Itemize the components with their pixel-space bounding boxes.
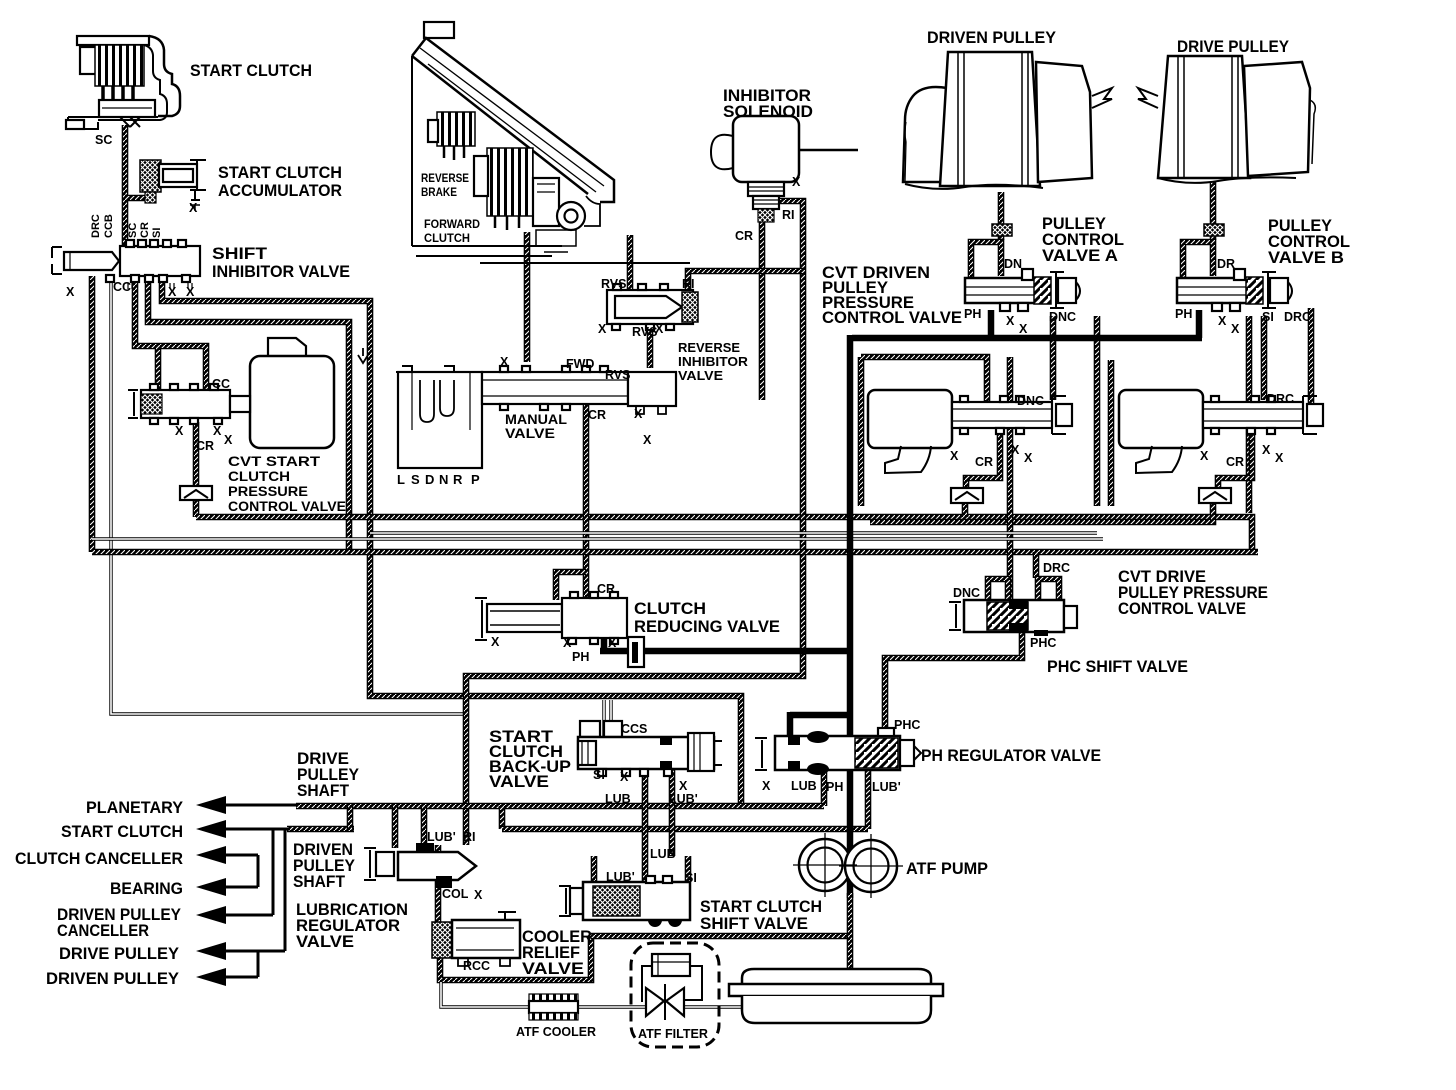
- svg-text:FORWARD: FORWARD: [424, 217, 480, 231]
- svg-text:REVERSE: REVERSE: [421, 171, 469, 185]
- wire DNC trunk into PHC shift valve: [1007, 357, 1014, 602]
- svg-text:PLANETARY: PLANETARY: [86, 799, 183, 817]
- svg-text:LUB': LUB': [427, 830, 456, 844]
- svg-text:FWD: FWD: [566, 357, 594, 371]
- wire LUB-prime drop to lubrication valve: [421, 806, 428, 845]
- svg-text:X: X: [1275, 451, 1284, 465]
- wire valve A PH drop: [988, 310, 995, 338]
- wire shift inhibitor line down and right to back-up loop: [111, 276, 466, 714]
- wire lower lube line: [502, 826, 868, 833]
- svg-text:X: X: [175, 424, 184, 438]
- manual valve: [358, 348, 676, 468]
- wire PHC line from shift valve to PH regulator: [885, 632, 1022, 737]
- svg-text:X: X: [168, 285, 177, 299]
- wire LUB-prime from back-up valve: [669, 770, 676, 856]
- wire start clutch hatched segment: [287, 826, 354, 833]
- svg-text:VALVE A: VALVE A: [1042, 247, 1118, 265]
- svg-text:CONTROL VALVE: CONTROL VALVE: [1118, 600, 1246, 618]
- svg-text:CLUTCH CANCELLER: CLUTCH CANCELLER: [15, 850, 183, 868]
- svg-text:X: X: [189, 201, 198, 215]
- wire drop to lubrication valve: [392, 806, 399, 848]
- svg-text:LUB: LUB: [791, 779, 817, 793]
- cooler relief valve: [432, 912, 520, 966]
- wire drive PCV CR loop: [1218, 428, 1252, 490]
- svg-text:DNC: DNC: [953, 586, 980, 600]
- wire PHC valve DRC port box: [1038, 579, 1059, 602]
- wire PH trunk vertical: [847, 335, 854, 898]
- svg-text:VALVE: VALVE: [489, 773, 549, 791]
- start clutch assembly: [66, 36, 180, 129]
- wire valve A inlet loop: [971, 242, 1001, 278]
- wire riser planetary to start clutch line: [347, 806, 354, 829]
- CVT drive pulley pressure control valve solenoid: [1119, 390, 1323, 503]
- svg-text:X: X: [474, 888, 483, 902]
- wire RVS link reverse inhibitor to manual valve: [647, 324, 654, 368]
- spring drive PCV: [1199, 488, 1231, 503]
- wire CC feed to start clutch PCV loop: [135, 276, 206, 390]
- wire CCS feed a: [602, 700, 605, 736]
- svg-text:REDUCING VALVE: REDUCING VALVE: [634, 618, 780, 636]
- wire filter to oil pan: [684, 1005, 742, 1008]
- svg-text:X: X: [950, 449, 959, 463]
- reverse inhibitor valve: [607, 284, 698, 330]
- svg-text:SOLENOID: SOLENOID: [723, 103, 813, 121]
- wire cooler circuit left: [441, 982, 529, 1007]
- wire PH main horizontal: [852, 335, 1202, 342]
- wire riser to shift valve LUB-prime: [591, 856, 598, 882]
- wire long loop from shift inhibitor valve to back-up valve box: [162, 276, 741, 806]
- svg-text:X: X: [1262, 443, 1271, 457]
- start clutch back-up valve: [578, 721, 722, 776]
- svg-text:START CLUTCH: START CLUTCH: [190, 62, 312, 80]
- svg-text:SHIFT VALVE: SHIFT VALVE: [700, 915, 808, 933]
- svg-text:PH: PH: [572, 650, 589, 664]
- wire DNC drop from valve A: [1050, 316, 1057, 400]
- wire DRC into PHC shift valve: [1033, 552, 1040, 578]
- svg-text:X: X: [186, 285, 195, 299]
- reverse brake and forward clutch assembly: [412, 22, 614, 256]
- PHC shift valve: [949, 579, 1077, 636]
- svg-text:START CLUTCH: START CLUTCH: [700, 898, 822, 916]
- wire second thin band line: [92, 537, 1103, 540]
- wire RCC loop: [440, 936, 591, 980]
- svg-text:X: X: [1218, 314, 1227, 328]
- wire lubrication valve to cooler relief valve: [435, 845, 442, 925]
- svg-text:INHIBITOR VALVE: INHIBITOR VALVE: [212, 263, 350, 281]
- wire shift inhibitor line to band: [148, 276, 349, 552]
- driven pulley stem: [222, 976, 258, 979]
- wire cooler return line to PH trunk: [591, 933, 848, 940]
- svg-text:RVS: RVS: [601, 277, 626, 291]
- PH regulator valve: [755, 728, 921, 775]
- svg-text:X: X: [213, 424, 222, 438]
- wire CC loop left side: [155, 346, 162, 390]
- svg-text:RVS: RVS: [632, 325, 657, 339]
- svg-text:X: X: [1019, 322, 1028, 336]
- svg-text:X: X: [563, 636, 572, 650]
- wire shift inhibitor X line down to band: [89, 276, 96, 552]
- wire DRC drop from valve B: [1261, 316, 1268, 400]
- ATF pump: [793, 833, 903, 898]
- planetary stem: [222, 804, 298, 807]
- svg-text:CCS: CCS: [621, 722, 647, 736]
- inhibitor solenoid right stub: [799, 149, 858, 152]
- wire CR line manual valve down to clutch reducing valve: [583, 404, 590, 600]
- svg-text:CLUTCH: CLUTCH: [424, 231, 470, 245]
- svg-text:PHC: PHC: [1030, 636, 1056, 650]
- wire driven spring to CR line: [962, 502, 969, 517]
- svg-text:PH: PH: [1175, 307, 1192, 321]
- wire FWD line from forward clutch to manual valve: [524, 232, 531, 362]
- svg-text:X: X: [1024, 451, 1033, 465]
- svg-text:X: X: [1006, 314, 1015, 328]
- svg-text:DNC: DNC: [1049, 310, 1076, 324]
- wire RI trunk and big loop to left: [466, 201, 803, 845]
- svg-text:SI: SI: [685, 871, 697, 885]
- svg-text:ATF PUMP: ATF PUMP: [906, 860, 988, 878]
- svg-text:START CLUTCH: START CLUTCH: [218, 164, 342, 182]
- wire PHC valve DNC port box: [988, 579, 1008, 600]
- svg-text:DRC: DRC: [1267, 392, 1294, 406]
- svg-text:X: X: [679, 779, 688, 793]
- svg-text:VALVE: VALVE: [522, 960, 584, 978]
- wire jog riser: [499, 806, 506, 829]
- wire PH line to clutch reducing valve: [600, 648, 851, 655]
- svg-text:RI: RI: [463, 830, 476, 844]
- svg-text:X: X: [762, 779, 771, 793]
- svg-text:REVERSE: REVERSE: [678, 340, 740, 355]
- wire valve B inlet loop: [1183, 242, 1213, 278]
- PH filter symbol: [628, 637, 644, 667]
- wire LUB line back-up valve to shift valve: [642, 770, 649, 882]
- driven pulley: [903, 52, 1112, 189]
- svg-text:PH: PH: [826, 780, 843, 794]
- vertical link b: [284, 829, 287, 951]
- svg-text:X: X: [598, 322, 607, 336]
- pulley control valve B: [1177, 224, 1292, 311]
- svg-text:LUB: LUB: [650, 847, 676, 861]
- svg-text:BRAKE: BRAKE: [421, 185, 457, 199]
- svg-text:CONTROL VALVE: CONTROL VALVE: [822, 309, 962, 327]
- svg-text:S: S: [411, 472, 420, 487]
- bearing stem: [222, 886, 258, 889]
- svg-text:L: L: [397, 472, 405, 487]
- wire SI riser to shift valve: [685, 856, 692, 882]
- ATF filter: [631, 943, 719, 1047]
- svg-text:DRC: DRC: [1284, 310, 1311, 324]
- svg-text:CR: CR: [975, 455, 993, 469]
- svg-text:PRESSURE: PRESSURE: [228, 484, 308, 499]
- arrow planetary: [196, 796, 226, 814]
- svg-text:CC: CC: [113, 280, 131, 294]
- svg-text:LUB': LUB': [872, 780, 901, 794]
- svg-text:LUB: LUB: [605, 792, 631, 806]
- svg-text:X: X: [1011, 443, 1020, 457]
- wire long CR hatched line: [196, 517, 1252, 552]
- svg-text:DR: DR: [1217, 257, 1235, 271]
- wire RI branch to reverse inhibitor valve: [688, 271, 803, 290]
- svg-text:SI: SI: [1262, 310, 1274, 324]
- svg-text:X: X: [634, 407, 643, 421]
- svg-text:VALVE: VALVE: [678, 368, 723, 383]
- wire PH branch to regulator: [790, 712, 851, 719]
- wire CR side loop into clutch reducing valve: [556, 572, 586, 600]
- wire spring to CR line: [193, 500, 200, 517]
- svg-text:DRC: DRC: [90, 214, 102, 238]
- svg-text:DRIVE PULLEY: DRIVE PULLEY: [1177, 38, 1289, 56]
- wire CCS feed b: [609, 700, 612, 736]
- svg-text:RI: RI: [682, 277, 695, 291]
- svg-text:PHC: PHC: [894, 718, 920, 732]
- svg-text:SHAFT: SHAFT: [297, 782, 349, 800]
- wire LUB riser from drive pulley shaft line to PH regulator: [821, 770, 828, 806]
- svg-text:CONTROL VALVE: CONTROL VALVE: [228, 499, 346, 514]
- wire drive pulley shaft to control valve B: [1210, 182, 1217, 240]
- vertical link c: [257, 951, 260, 977]
- wire driven PCV loop left side: [858, 357, 865, 506]
- svg-text:LUB': LUB': [606, 870, 635, 884]
- arrow bearing: [196, 878, 226, 896]
- CVT start clutch pressure control valve: [128, 338, 334, 500]
- wire CR line from inhibitor solenoid to manual valve: [759, 222, 766, 400]
- wire drive PCV loop left side: [1108, 360, 1115, 506]
- svg-text:DRC: DRC: [1043, 561, 1070, 575]
- svg-text:VALVE B: VALVE B: [1268, 249, 1344, 267]
- svg-text:X: X: [1200, 449, 1209, 463]
- svg-text:X: X: [224, 433, 233, 447]
- svg-text:X: X: [655, 322, 664, 336]
- svg-text:ATF FILTER: ATF FILTER: [638, 1026, 709, 1041]
- svg-text:X: X: [491, 635, 500, 649]
- driven pulley canceller stem: [222, 914, 273, 917]
- wire valve A right drop: [1094, 316, 1101, 506]
- svg-text:BEARING: BEARING: [110, 880, 183, 898]
- svg-text:CCB: CCB: [103, 214, 115, 238]
- svg-text:CR: CR: [1226, 455, 1244, 469]
- CVT driven pulley pressure control valve solenoid: [868, 390, 1072, 503]
- spring CVT start clutch PCV: [180, 486, 212, 500]
- pulley control valve A: [965, 224, 1080, 311]
- svg-text:DNC: DNC: [1017, 394, 1044, 408]
- wire spool to spring line: [193, 422, 200, 488]
- clutch canceller stem: [222, 854, 258, 857]
- wire drive pulley shaft line: [296, 803, 824, 810]
- svg-text:CR: CR: [597, 582, 615, 596]
- svg-text:VALVE: VALVE: [296, 933, 354, 951]
- arrow clutch canceller: [196, 846, 226, 864]
- svg-text:SC: SC: [95, 133, 112, 147]
- wire long hatched band line: [92, 549, 1258, 556]
- svg-text:ACCUMULATOR: ACCUMULATOR: [218, 182, 342, 200]
- svg-text:X: X: [620, 770, 629, 784]
- arrow drive pulley: [196, 942, 226, 960]
- wire SC line from start clutch to shift inhibitor valve: [122, 125, 129, 245]
- wire clutch reducing valve PH port: [601, 630, 608, 651]
- svg-text:COL: COL: [442, 887, 469, 901]
- svg-text:SI: SI: [593, 768, 605, 782]
- svg-text:SI: SI: [151, 228, 163, 238]
- start clutch shift valve: [559, 876, 690, 927]
- svg-text:RVS: RVS: [605, 368, 630, 382]
- svg-text:CLUTCH: CLUTCH: [228, 469, 290, 484]
- wire valve B PH drop: [1196, 310, 1203, 338]
- canceller-bearing link: [257, 855, 260, 887]
- wire driven PCV loop top: [861, 357, 987, 404]
- svg-text:SHIFT: SHIFT: [212, 245, 267, 263]
- svg-text:LUB': LUB': [669, 792, 698, 806]
- svg-text:SC: SC: [127, 223, 139, 238]
- svg-text:CR: CR: [588, 408, 606, 422]
- svg-text:MANUAL: MANUAL: [505, 412, 567, 427]
- svg-text:R: R: [453, 472, 463, 487]
- wire drive spring link: [870, 503, 1213, 522]
- svg-text:PH: PH: [964, 307, 981, 321]
- ATF cooler: [529, 994, 578, 1020]
- start clutch stem: [222, 828, 290, 831]
- svg-text:DRIVEN PULLEY: DRIVEN PULLEY: [46, 970, 179, 988]
- svg-text:CR: CR: [735, 229, 753, 243]
- svg-text:CLUTCH: CLUTCH: [634, 600, 706, 618]
- wire SI drop from valve B: [1246, 316, 1253, 513]
- svg-text:SHAFT: SHAFT: [293, 873, 345, 891]
- svg-text:X: X: [500, 355, 509, 369]
- svg-text:CR: CR: [196, 439, 214, 453]
- svg-text:DN: DN: [1004, 257, 1022, 271]
- wire PH trunk lower hatched section to oil pan: [847, 893, 854, 982]
- wire PH regulator top port drop: [787, 712, 794, 736]
- arrow driven pulley canceller: [196, 906, 226, 924]
- svg-text:START CLUTCH: START CLUTCH: [61, 823, 183, 841]
- wire cooler to filter: [576, 1005, 651, 1008]
- wire driven PCV CR loop: [966, 428, 1000, 490]
- svg-text:X: X: [608, 636, 617, 650]
- clutch reducing valve: [475, 592, 644, 667]
- oil pan: [729, 969, 943, 1023]
- wire branch to start clutch accumulator: [125, 195, 146, 202]
- svg-text:D: D: [425, 472, 434, 487]
- svg-text:P: P: [471, 472, 480, 487]
- svg-text:CR: CR: [139, 222, 151, 238]
- arrow start clutch: [196, 820, 226, 838]
- svg-text:RI: RI: [782, 208, 795, 222]
- svg-text:ATF COOLER: ATF COOLER: [516, 1024, 597, 1039]
- inhibitor solenoid: [711, 116, 799, 222]
- shift inhibitor valve: [52, 240, 200, 289]
- drive pulley stem: [222, 950, 285, 953]
- svg-text:X: X: [1231, 322, 1240, 336]
- svg-text:VALVE: VALVE: [505, 426, 555, 441]
- svg-text:N: N: [439, 472, 448, 487]
- lubrication regulator valve: [364, 843, 476, 888]
- wire third thin band line: [370, 531, 1097, 534]
- svg-text:X: X: [66, 285, 75, 299]
- svg-text:X: X: [792, 175, 801, 189]
- svg-text:X: X: [643, 433, 652, 447]
- wire LUB-prime drop from PH regulator: [865, 770, 872, 829]
- svg-text:CVT START: CVT START: [228, 454, 321, 469]
- forward clutch shaft line: [480, 262, 690, 264]
- wire RVS line from reverse brake: [627, 235, 634, 290]
- svg-text:RCC: RCC: [463, 959, 490, 973]
- drive pulley: [1138, 56, 1315, 183]
- wire valve B right drop: [1308, 308, 1315, 416]
- arrow driven pulley: [196, 968, 226, 986]
- wire driven pulley shaft to control valve A: [998, 192, 1005, 240]
- svg-text:DRIVEN PULLEY: DRIVEN PULLEY: [927, 29, 1056, 47]
- svg-text:INHIBITOR: INHIBITOR: [678, 354, 749, 369]
- svg-text:PH REGULATOR VALVE: PH REGULATOR VALVE: [921, 747, 1101, 765]
- svg-text:PHC SHIFT VALVE: PHC SHIFT VALVE: [1047, 658, 1188, 676]
- svg-text:DRIVE PULLEY: DRIVE PULLEY: [59, 945, 179, 963]
- spring driven PCV: [951, 488, 983, 503]
- start clutch accumulator: [140, 160, 206, 211]
- svg-text:CC: CC: [212, 377, 230, 391]
- vertical link a: [272, 829, 275, 915]
- svg-text:CANCELLER: CANCELLER: [57, 922, 149, 940]
